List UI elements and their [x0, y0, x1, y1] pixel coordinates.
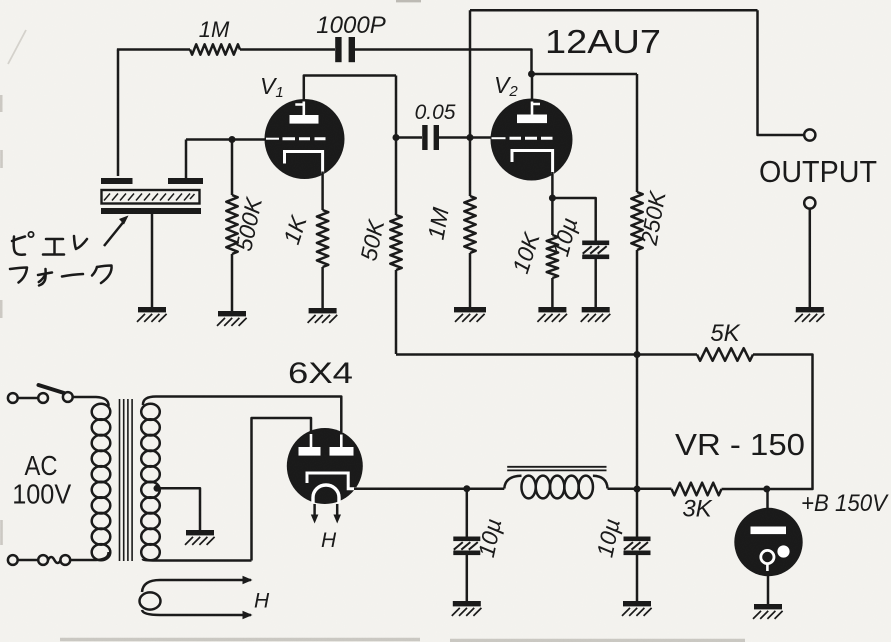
- tube V1 grid: [266, 138, 326, 140]
- capacitor 10uF filter 2: [624, 537, 651, 556]
- heater lead right: [333, 504, 341, 524]
- wire top rail: [470, 9, 758, 12]
- node V2 cathode junction: [549, 195, 556, 202]
- resistor 1K: [317, 210, 328, 267]
- wire 1M grid bottom: [469, 253, 472, 307]
- capacitor 10uF filter 1: [453, 537, 480, 556]
- ground filter cap 2: [622, 601, 652, 616]
- piezo electrode right: [168, 178, 203, 184]
- wire 1M to 1000P: [240, 48, 335, 51]
- wire B plus to VR tube: [766, 489, 769, 510]
- wire V2 cathode down: [551, 172, 554, 198]
- tube VR150 envelope: [734, 508, 802, 576]
- wire switch to transformer: [73, 397, 109, 406]
- tube VR150 starter dot: [777, 545, 789, 557]
- piezo electrode left: [101, 178, 133, 184]
- label katakana piezo line2: [10, 266, 112, 286]
- scan tick top edge: [396, 0, 421, 2]
- capacitor 10uF bypass: [582, 241, 609, 260]
- tube V2 plate: [517, 102, 547, 124]
- wire filter cap 2 down: [636, 489, 639, 537]
- wire AC bottom lead: [18, 559, 39, 562]
- resistor 5K: [697, 348, 753, 361]
- tube V2 cathode: [512, 151, 553, 175]
- piezo bottom plate: [101, 208, 201, 214]
- wire V1 plate to 0.05 node: [395, 76, 398, 138]
- wire rail down to choke output: [636, 355, 639, 490]
- wire 10K bottom: [551, 278, 554, 307]
- switch contact right: [63, 392, 73, 402]
- terminal AC top: [8, 393, 18, 403]
- choke winding: [504, 476, 607, 499]
- node filter input: [463, 485, 470, 492]
- scan smudge bottom edge: [60, 640, 745, 641]
- wire VR tube to ground: [767, 576, 770, 604]
- wire V1 cathode down: [321, 172, 324, 211]
- resistor 3K: [672, 483, 722, 496]
- wire V1 plate up: [304, 76, 396, 100]
- filament arrow top: [243, 576, 253, 584]
- node V2 plate junction: [528, 71, 535, 78]
- tube V1 plate: [290, 102, 319, 124]
- wire V2 plate to 250K: [532, 73, 638, 76]
- wire top-left horizontal: [117, 48, 190, 51]
- transformer secondary winding: [141, 404, 160, 561]
- fuse contact left: [38, 555, 48, 565]
- wire 1000P to V2 plate corner: [355, 50, 532, 72]
- tube V2 envelope: [491, 99, 573, 181]
- ground 1M: [454, 307, 486, 322]
- wire output drop: [758, 10, 805, 135]
- ground 500K: [217, 311, 247, 326]
- choke core: [507, 467, 606, 471]
- switch contact left: [38, 393, 48, 403]
- wire 50K bottom: [395, 270, 398, 354]
- wire piezo right electrode up: [185, 140, 188, 179]
- ground piezo: [137, 307, 167, 322]
- scan smudge left edge: [0, 95, 3, 545]
- tube V2 grid: [492, 137, 553, 139]
- wire 0.05 to V2 grid: [439, 136, 491, 139]
- ground 10K: [537, 307, 567, 322]
- filament winding: [140, 580, 252, 615]
- wire 1K bottom: [321, 267, 324, 308]
- heater lead left: [311, 504, 319, 524]
- wire fuse to transformer: [70, 552, 108, 560]
- terminal OUTPUT ground side: [804, 197, 815, 208]
- wire choke to 3K: [608, 487, 672, 490]
- wire filter cap 1 to ground: [466, 555, 469, 601]
- wire 6X4 cathode output: [354, 487, 504, 490]
- tube VR150 cathode circle: [761, 550, 774, 571]
- node V2 grid junction: [467, 134, 474, 141]
- wire 500K top: [231, 140, 234, 196]
- resistor 500K: [226, 195, 237, 254]
- resistor 1M feedback: [190, 44, 240, 54]
- resistor 250K: [631, 192, 642, 250]
- tube V1 cathode: [285, 152, 323, 174]
- wire V2 plate up: [531, 74, 534, 99]
- node filter output: [634, 486, 641, 493]
- wire top-left vertical: [117, 50, 120, 177]
- node B plus: [763, 486, 770, 493]
- ground VR150: [753, 604, 783, 619]
- resistor 10K: [547, 235, 558, 278]
- wire secondary bottom: [143, 559, 252, 561]
- filament arrow bottom: [243, 611, 253, 619]
- fuse element: [48, 557, 61, 563]
- wire piezo to V1 grid: [186, 138, 266, 141]
- transformer primary winding: [92, 404, 111, 561]
- wire node to 0.05: [396, 136, 422, 139]
- wire 500K bottom: [231, 254, 234, 311]
- ground center tap: [185, 530, 215, 545]
- tube 6X4 envelope: [287, 428, 363, 504]
- ground output: [795, 307, 825, 322]
- capacitor 0.05: [422, 125, 439, 150]
- node secondary center tap: [154, 485, 161, 492]
- wire center tap to ground: [157, 488, 200, 530]
- capacitor 1000P: [335, 37, 355, 62]
- label katakana piezo line1: [12, 232, 87, 255]
- tube 6X4 heater: [313, 485, 339, 503]
- node rail junction 250K: [634, 351, 641, 358]
- wire 50K top: [395, 138, 398, 216]
- tube VR150 anode: [751, 527, 787, 535]
- resistor 50K: [390, 215, 401, 270]
- node grid junction 500K: [229, 136, 236, 143]
- wire secondary top to 6X4 plate: [143, 397, 341, 433]
- wire cathode to 10K: [551, 198, 554, 235]
- wire 250K bottom: [636, 250, 639, 355]
- wire bypass cap to ground: [594, 259, 597, 307]
- switch lever: [39, 385, 65, 393]
- ground filter cap 1: [452, 601, 482, 616]
- ground 1K: [308, 308, 338, 323]
- tube 6X4 cathode: [307, 473, 356, 489]
- wire cathode to bypass cap: [552, 198, 595, 241]
- wire AC top lead: [18, 397, 39, 400]
- piezo crystal body: [102, 190, 200, 204]
- scan scratch top left: [8, 30, 26, 64]
- resistor 1M grid: [464, 196, 475, 253]
- wire 3K to B plus node: [722, 488, 773, 491]
- wire 6X4 left plate: [252, 418, 312, 561]
- terminal AC bottom: [8, 555, 18, 565]
- wire 250K top: [636, 74, 639, 192]
- wire filter cap 2 to ground: [636, 555, 639, 601]
- wire output terminal to ground: [809, 209, 812, 307]
- tube 6X4 plates: [299, 434, 354, 456]
- transformer core: [120, 399, 133, 561]
- terminal OUTPUT hot: [804, 129, 815, 140]
- ground bypass cap: [581, 307, 611, 322]
- wire 1M grid top: [469, 138, 472, 197]
- piezo pointer arrow: [104, 216, 129, 247]
- fuse contact right: [60, 555, 70, 565]
- wire grid node to top rail: [469, 10, 472, 135]
- tube V1 envelope: [265, 99, 345, 179]
- wire piezo bottom to ground: [151, 214, 154, 307]
- wire filter cap 1 down: [466, 489, 469, 537]
- wire 5K to VR rail: [753, 355, 813, 490]
- node V1 plate junction: [393, 134, 400, 141]
- wire B plus rail: [396, 353, 697, 356]
